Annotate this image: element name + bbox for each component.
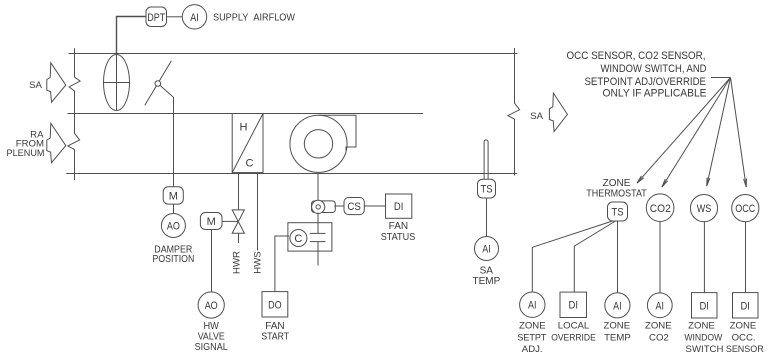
svg-text:TS: TS	[612, 207, 624, 219]
wire: TS to AI zone setpt	[532, 221, 612, 292]
svg-text:FAN: FAN	[389, 221, 408, 232]
svg-text:M: M	[169, 191, 178, 203]
duct bottom wall	[66, 173, 517, 175]
point AI zone setpt	[520, 292, 545, 317]
svg-text:AI: AI	[656, 300, 665, 312]
svg-text:ONLY IF APPLICABLE: ONLY IF APPLICABLE	[603, 88, 707, 100]
svg-text:SUPPLY AIRFLOW: SUPPLY AIRFLOW	[213, 13, 296, 24]
wire: CS to DI	[364, 205, 385, 207]
label ZONE OCC. SENSOR	[726, 321, 764, 355]
duct right wall with break symbol	[508, 48, 520, 175]
svg-text:SWITCH: SWITCH	[686, 344, 724, 355]
pipe HWR	[238, 174, 240, 210]
arrow to WS	[707, 78, 731, 187]
current sensor body	[312, 201, 336, 213]
svg-text:SA: SA	[530, 111, 543, 122]
airflow measuring station	[104, 54, 130, 111]
current sensor dot	[316, 205, 320, 209]
wire: WS to DI window	[703, 222, 705, 293]
svg-text:WINDOW SWITCH, AND: WINDOW SWITCH, AND	[601, 63, 707, 75]
wire: TS to DI local override	[574, 221, 615, 292]
svg-text:THERMOSTAT: THERMOSTAT	[586, 189, 647, 200]
point DI local override	[560, 292, 587, 317]
svg-text:SA: SA	[480, 265, 494, 276]
duct middle wall	[68, 113, 424, 115]
leader line	[711, 77, 731, 79]
svg-text:AO: AO	[167, 221, 180, 233]
label LOCAL OVERRIDE	[551, 321, 596, 344]
point AO damper position	[161, 214, 185, 238]
sensor WS	[690, 195, 717, 222]
svg-text:SIGNAL: SIGNAL	[195, 342, 228, 353]
wire: TS to AI	[486, 198, 488, 237]
svg-text:WS: WS	[697, 203, 712, 215]
svg-text:AO: AO	[205, 300, 218, 312]
svg-text:HWS: HWS	[253, 251, 264, 273]
wire: current sensor to contact	[317, 213, 319, 234]
wire: sensor to CS	[334, 205, 344, 207]
wire: M to AO	[173, 204, 175, 214]
SA arrow (right)	[549, 93, 567, 131]
svg-text:OVERRIDE: OVERRIDE	[551, 332, 596, 343]
label SA TEMP	[473, 265, 501, 287]
svg-text:C: C	[294, 233, 302, 245]
svg-text:CS: CS	[347, 201, 361, 213]
contact plates	[310, 233, 326, 241]
svg-text:DI: DI	[699, 300, 709, 312]
svg-text:DPT: DPT	[147, 12, 165, 24]
label ZONE THERMOSTAT	[586, 178, 647, 200]
svg-text:H: H	[240, 122, 248, 134]
temp sensor probe	[484, 140, 488, 181]
label HW VALVE SIGNAL	[195, 321, 228, 353]
svg-text:DI: DI	[569, 300, 579, 312]
sensor OCC	[732, 195, 759, 222]
svg-text:START: START	[261, 331, 289, 342]
svg-text:DO: DO	[268, 299, 282, 311]
point DO fan start	[262, 292, 288, 317]
svg-text:ADJ.: ADJ.	[522, 344, 543, 355]
valve body	[232, 210, 244, 233]
duct top wall	[69, 53, 518, 55]
svg-text:ZONE: ZONE	[688, 321, 715, 332]
svg-text:POSITION: POSITION	[153, 254, 195, 265]
arrow to zone thermostat	[637, 78, 731, 184]
wire: CO2 to AI zone co2	[659, 222, 661, 293]
actuator M (valve)	[200, 213, 222, 230]
wire: M to valve	[222, 220, 238, 222]
svg-text:LOCAL: LOCAL	[558, 321, 590, 332]
svg-text:ZONE: ZONE	[730, 321, 757, 332]
sensor TS (zone)	[608, 202, 628, 221]
point AI sa temp	[475, 237, 499, 261]
wire: contact down	[317, 242, 319, 266]
point DI zone window switch	[692, 293, 718, 318]
svg-text:SENSOR: SENSOR	[726, 344, 764, 355]
wire: airflow station to DPT	[117, 17, 147, 54]
wire: DO to starter	[275, 236, 289, 292]
fan starter box	[288, 223, 332, 251]
label ZONE WINDOW SWITCH	[684, 321, 723, 355]
label FAN STATUS	[381, 221, 416, 243]
contactor coil C	[290, 230, 307, 247]
fan scroll	[290, 115, 356, 172]
SA arrow (left)	[47, 63, 66, 102]
fan inner circle	[304, 130, 332, 158]
transmitter DPT	[146, 7, 167, 27]
svg-text:OCC SENSOR, CO2 SENSOR,: OCC SENSOR, CO2 SENSOR,	[567, 50, 706, 62]
svg-text:VALVE: VALVE	[198, 331, 225, 342]
pipe below valve	[238, 233, 240, 243]
point AO hw valve signal	[198, 292, 224, 318]
wire: TS to AI zone temp	[617, 221, 619, 293]
svg-text:AI: AI	[190, 12, 199, 24]
svg-text:SETPOINT ADJ/OVERRIDE: SETPOINT ADJ/OVERRIDE	[585, 76, 707, 88]
svg-text:SA: SA	[29, 80, 42, 91]
svg-text:PLENUM: PLENUM	[7, 148, 45, 159]
svg-text:AI: AI	[613, 300, 622, 312]
label RA FROM PLENUM	[7, 129, 45, 159]
damper linkage wire	[160, 86, 173, 187]
point DI zone occ sensor	[733, 293, 759, 318]
svg-text:ZONE: ZONE	[603, 321, 630, 332]
point DI fan status	[386, 194, 412, 218]
svg-text:STATUS: STATUS	[381, 232, 416, 243]
sensor TS (supply air)	[478, 179, 496, 198]
arrow to OCC	[731, 78, 747, 188]
svg-text:OCC.: OCC.	[732, 332, 756, 343]
point AI zone temp	[605, 293, 630, 318]
svg-text:TS: TS	[481, 184, 493, 196]
label FAN START	[261, 321, 289, 342]
svg-text:HWR: HWR	[232, 251, 243, 274]
actuator M (damper)	[163, 187, 183, 204]
svg-text:OCC: OCC	[735, 203, 755, 215]
svg-text:TEMP: TEMP	[473, 276, 501, 287]
sensor CO2	[646, 194, 674, 222]
wire: fan to current sensor	[317, 174, 319, 201]
svg-text:M: M	[207, 216, 216, 228]
svg-text:SETPT: SETPT	[517, 332, 546, 343]
wire: M to AO valve signal	[211, 230, 213, 293]
svg-text:WINDOW: WINDOW	[684, 332, 723, 343]
current sensor clamp circle	[312, 200, 325, 213]
svg-text:ZONE: ZONE	[645, 321, 672, 332]
duct left wall with break symbols	[68, 48, 80, 180]
svg-text:C: C	[246, 158, 254, 170]
wire: DPT to AI	[167, 16, 183, 18]
label ZONE TEMP	[603, 321, 630, 344]
point AI zone co2	[647, 293, 672, 318]
relay CS	[344, 198, 364, 215]
arrow to CO2	[662, 78, 731, 188]
label DAMPER POSITION	[153, 244, 195, 265]
point AI supply airflow	[182, 5, 206, 29]
svg-text:ZONE: ZONE	[519, 321, 546, 332]
wire: OCC to DI occ	[745, 222, 747, 293]
svg-text:AI: AI	[528, 300, 537, 312]
svg-text:DI: DI	[394, 201, 404, 213]
damper blade	[145, 61, 172, 105]
RA arrow	[47, 123, 66, 162]
svg-text:TEMP: TEMP	[604, 332, 631, 343]
svg-text:CO2: CO2	[650, 203, 671, 215]
svg-text:ZONE: ZONE	[603, 178, 631, 189]
svg-text:DI: DI	[740, 300, 750, 312]
pipe HWS	[257, 174, 259, 251]
svg-text:AI: AI	[482, 244, 491, 256]
svg-text:CO2: CO2	[649, 332, 669, 343]
coil box H/C	[232, 114, 263, 173]
damper pivot	[155, 81, 161, 87]
label ZONE SETPT ADJ.	[517, 321, 546, 355]
label ZONE CO2	[645, 321, 672, 344]
note text block	[567, 50, 707, 100]
